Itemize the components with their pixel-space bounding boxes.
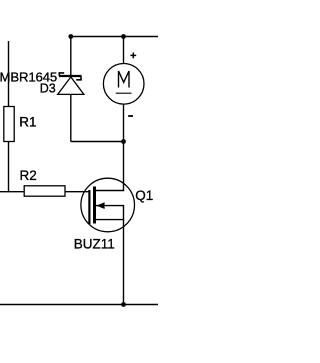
- transistor Q1 drain tap: [95, 190, 124, 192]
- node junction dot top right: [121, 34, 126, 39]
- svg-text:R1: R1: [19, 114, 36, 129]
- wire motor plus lead: [123, 37, 125, 64]
- wire R2 to gate of Q1: [65, 191, 89, 193]
- svg-text:Q1: Q1: [135, 188, 153, 203]
- label plus: [130, 53, 136, 59]
- motor M underline: [116, 92, 132, 94]
- diode D3 cathode left hook: [59, 73, 64, 76]
- svg-text:R2: R2: [20, 168, 37, 183]
- motor M letter: [119, 71, 130, 88]
- motor M1 circle: [103, 64, 144, 105]
- transistor Q1 channel bar: [93, 187, 96, 224]
- transistor Q1 gate bar: [88, 190, 90, 224]
- node junction dot ground rail: [121, 302, 126, 307]
- wire R1 bottom to gate net: [8, 142, 10, 192]
- wire anode horizontal to drain node: [71, 141, 124, 143]
- transistor Q1 bulk to source vertical: [123, 206, 125, 220]
- transistor Q1 bulk arrow: [97, 202, 105, 209]
- wire anode of D3 down: [70, 94, 72, 141]
- wire motor minus lead: [123, 104, 125, 142]
- wire supply left vertical to R1: [8, 41, 10, 107]
- transistor Q1 source tap: [95, 219, 124, 221]
- diode D3 triangle: [58, 77, 84, 94]
- resistor R1: [4, 107, 14, 142]
- wire ground rail: [0, 304, 158, 306]
- wire source vertical to ground rail: [123, 220, 125, 305]
- diode D3 schottky cathode bar: [59, 75, 82, 77]
- transistor Q1 bulk line: [96, 205, 124, 207]
- wire drain vertical: [123, 142, 125, 191]
- node junction dot drain net: [121, 139, 126, 144]
- label minus: [128, 115, 133, 117]
- wire cathode of D3: [70, 37, 72, 76]
- svg-text:BUZ11: BUZ11: [74, 236, 115, 251]
- wire gate net left segment: [0, 191, 24, 193]
- transistor Q1 circle: [81, 178, 135, 232]
- wire top supply rail: [71, 36, 158, 38]
- resistor R2: [24, 186, 65, 196]
- node junction dot top left: [68, 34, 73, 39]
- svg-text:D3: D3: [40, 81, 56, 95]
- diode D3 cathode right hook: [76, 76, 81, 80]
